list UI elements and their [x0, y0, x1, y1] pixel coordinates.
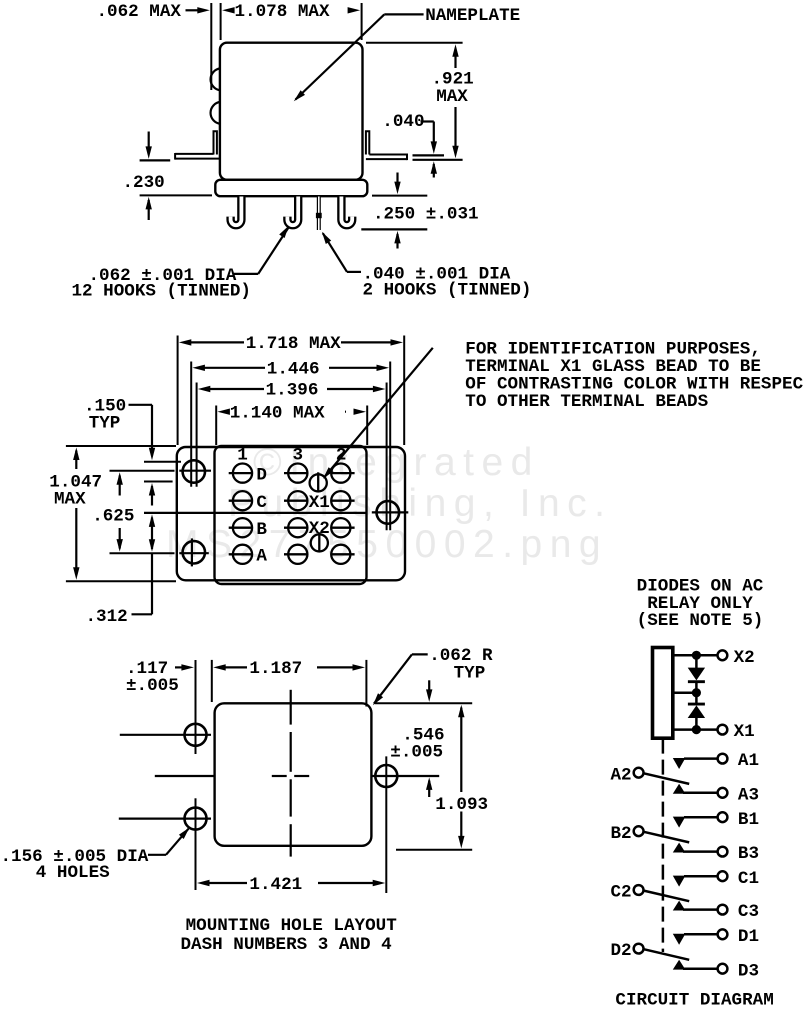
vertical centerline (dashed)	[290, 690, 292, 725]
terminal C3	[288, 491, 307, 510]
extension lines 1.396	[196, 383, 198, 487]
svg-text:A3: A3	[738, 785, 759, 805]
contact B3 (NO)	[673, 843, 686, 853]
terminal X2	[311, 534, 328, 551]
svg-text:X2: X2	[734, 648, 755, 668]
svg-text:X2: X2	[309, 519, 330, 539]
svg-text:NAMEPLATE: NAMEPLATE	[425, 6, 520, 26]
terminal D2	[331, 464, 350, 483]
terminal B1 circle	[718, 812, 728, 822]
dimension 1.718 MAX	[190, 341, 244, 343]
mounting hole top-left cross	[110, 470, 175, 472]
diode CR2 (cathode up)	[688, 703, 705, 706]
svg-text:X1: X1	[309, 493, 330, 513]
terminal A3	[288, 545, 307, 564]
dimension .625 arrows	[117, 472, 123, 485]
mounting hole top-left	[183, 460, 205, 482]
dimension 1.421	[197, 880, 210, 886]
svg-text:12 HOOKS (TINNED): 12 HOOKS (TINNED)	[72, 281, 252, 301]
nameplate leader	[384, 13, 423, 15]
junction dot middle	[692, 688, 701, 697]
svg-text:.625: .625	[92, 506, 134, 526]
contact D1 (NC)	[673, 934, 686, 945]
horizontal centerline left	[155, 775, 215, 777]
dimension .546 lower arrow	[426, 777, 432, 790]
horizontal centerline dashes	[272, 775, 287, 777]
svg-text:C: C	[256, 493, 267, 513]
relay body outline (side view)	[220, 43, 363, 180]
extension lines 1.718	[177, 336, 179, 446]
terminal C1	[233, 491, 252, 510]
horizontal centerline right	[371, 775, 439, 777]
svg-text:±.005: ±.005	[126, 676, 179, 696]
extension line body top right	[366, 42, 463, 44]
svg-text:.062 MAX: .062 MAX	[97, 2, 182, 22]
mounting plane line right upper	[413, 154, 445, 156]
svg-text:.230: .230	[123, 173, 165, 193]
extension line case bottom left	[66, 580, 176, 582]
mounting hole bottom-left	[183, 541, 205, 563]
relay coil	[653, 648, 673, 739]
terminal bead bump upper-left	[211, 68, 221, 90]
hook terminal 3 thin (.040 dia, 2 hooks)	[317, 197, 321, 231]
dimension .230 upper arrow	[148, 132, 150, 149]
mounting plane line right lower	[413, 159, 463, 161]
dimension .062 MAX arrow	[186, 9, 201, 11]
terminal C2 circle	[634, 885, 644, 895]
terminal B3	[288, 518, 307, 537]
mounting plane line left	[140, 159, 171, 161]
svg-text:D: D	[256, 465, 267, 485]
svg-text:B1: B1	[738, 810, 759, 830]
svg-text:1.421: 1.421	[249, 875, 302, 895]
arrow to hole bottom edge line	[149, 483, 155, 496]
left mounting flange plate	[175, 153, 213, 155]
dimension .921 MAX lower arrow	[454, 107, 456, 147]
diode CR1 (cathode down)	[688, 668, 705, 681]
dimension .250 lower arrow	[394, 231, 400, 244]
terminal A1 circle	[718, 754, 728, 764]
terminal view inner body outline	[215, 446, 367, 584]
wire coil to X1	[673, 728, 718, 731]
extension line case top left	[66, 445, 176, 447]
terminal A2 circle	[634, 768, 644, 778]
mounting hole layout top-left hole	[185, 724, 207, 746]
top-left hole crosslines	[120, 734, 211, 736]
terminal D3 circle	[718, 964, 728, 974]
extension line 1.187 left	[211, 660, 213, 702]
terminal X2 circle	[718, 650, 728, 660]
dimension .040 lower arrow	[431, 161, 437, 174]
terminal A3 circle	[718, 788, 728, 798]
svg-text:CIRCUIT DIAGRAM: CIRCUIT DIAGRAM	[615, 990, 773, 1009]
extension line body right edge	[361, 3, 363, 40]
svg-text:A2: A2	[611, 765, 632, 785]
leader 2 hooks	[347, 271, 361, 273]
terminal A1	[233, 545, 252, 564]
svg-text:C1: C1	[738, 869, 759, 889]
extension line body left edge	[220, 3, 222, 40]
dimension 1.396	[208, 388, 264, 390]
mounting hole right cross	[372, 511, 409, 513]
mounting outline rect	[215, 703, 372, 846]
terminal C3 circle	[718, 905, 728, 915]
diode chain wire	[695, 655, 698, 668]
mounting hole right	[377, 501, 400, 524]
extension line case bottom right (bottom view)	[396, 849, 472, 851]
svg-text:MAX: MAX	[54, 490, 86, 510]
svg-text:MOUNTING HOLE LAYOUT: MOUNTING HOLE LAYOUT	[186, 916, 398, 936]
terminal D3	[288, 464, 307, 483]
svg-text:.312: .312	[86, 607, 128, 627]
hook terminal 1 (left, .062 dia)	[231, 197, 242, 226]
dimension 1.140 MAX	[217, 409, 230, 415]
svg-text:MAX: MAX	[436, 87, 468, 107]
dimension 1.446	[203, 367, 265, 369]
svg-text:TYP: TYP	[89, 414, 121, 434]
contact A1 (NC)	[673, 758, 686, 769]
svg-text:C2: C2	[611, 883, 632, 903]
svg-text:D1: D1	[738, 927, 759, 947]
svg-text:1.078 MAX: 1.078 MAX	[235, 2, 330, 22]
svg-text:3: 3	[293, 445, 304, 465]
dimension .230 lower arrow	[146, 197, 152, 210]
dimension 1.093 upper arrow	[458, 705, 464, 718]
right mounting flange lip	[366, 131, 369, 154]
extension line 1.187 right	[365, 660, 367, 707]
svg-text:A1: A1	[738, 751, 759, 771]
terminal view outer case outline	[177, 447, 405, 580]
svg-text:.250 ±.031: .250 ±.031	[373, 204, 479, 224]
X1 identification note leader	[325, 348, 433, 477]
dimension .546 upper arrow	[428, 680, 430, 692]
wire coil middle tap	[673, 691, 696, 694]
terminal D1	[233, 464, 252, 483]
watermark line 2	[228, 482, 613, 526]
base bottom extension left	[140, 194, 212, 196]
extension line .062 MAX	[210, 3, 212, 90]
dimension .040 bracket	[421, 120, 434, 122]
right mounting flange plate	[369, 154, 407, 156]
svg-text:1: 1	[237, 445, 248, 465]
contact D3 (NO)	[673, 960, 686, 970]
svg-text:1.718 MAX: 1.718 MAX	[246, 334, 341, 354]
dimension 1.187	[213, 664, 226, 670]
dimension .312 bracket (mid view)	[151, 554, 153, 615]
junction dot X2 branch	[692, 651, 701, 660]
svg-text:±.005: ±.005	[390, 742, 443, 762]
dimension 1.047 MAX	[73, 448, 79, 461]
svg-text:.040: .040	[382, 112, 424, 132]
dimension .040 upper arrow	[431, 141, 437, 154]
svg-text:D2: D2	[611, 941, 632, 961]
base bottom extension right	[372, 195, 427, 197]
terminal C1 circle	[718, 871, 728, 881]
junction dot X1 branch	[692, 725, 701, 734]
mounting hole layout bottom-left hole	[185, 808, 207, 830]
terminal D2 circle	[634, 944, 644, 954]
svg-text:TYP: TYP	[454, 663, 486, 683]
svg-text:A: A	[256, 547, 267, 567]
hook bottom extension line	[361, 228, 427, 230]
terminal X1 (contrasting bead)	[310, 474, 327, 491]
svg-text:(SEE NOTE 5): (SEE NOTE 5)	[637, 611, 764, 631]
leader .062 R	[412, 653, 428, 655]
terminal B3 circle	[718, 847, 728, 857]
dimension 1.093 lower arrow	[460, 812, 462, 839]
terminal D1 circle	[718, 929, 728, 939]
terminal X1 circle	[718, 725, 728, 735]
mounting hole layout right hole	[375, 765, 397, 787]
svg-text:DASH NUMBERS 3 AND 4: DASH NUMBERS 3 AND 4	[181, 935, 393, 955]
dimension 1.078 MAX arrows	[222, 7, 235, 13]
terminal B1	[233, 518, 252, 537]
hook terminal 4 (right, .062 dia)	[341, 197, 352, 226]
relay base plate	[215, 180, 367, 196]
dimension .117 arrow	[175, 666, 184, 668]
contact C wiper	[644, 891, 690, 902]
svg-text:1.446: 1.446	[267, 359, 320, 379]
dimension .250 upper arrow	[396, 173, 398, 185]
contact A3 (NO)	[673, 784, 686, 794]
svg-text:X1: X1	[734, 722, 755, 742]
svg-text:2 HOOKS (TINNED): 2 HOOKS (TINNED)	[363, 280, 532, 300]
dimension .921 MAX upper arrow	[454, 55, 456, 68]
contact B1 (NC)	[673, 817, 686, 828]
reference line hole bottom edge	[144, 481, 173, 483]
armature dashed link	[662, 739, 665, 952]
right hole crossline	[385, 756, 387, 893]
svg-text:B3: B3	[738, 844, 759, 864]
dimension .150 bracket	[129, 404, 153, 406]
contact C1 (NC)	[673, 876, 686, 887]
extension lines 1.446	[190, 362, 192, 487]
terminal A2	[331, 545, 350, 564]
terminal B2 circle	[634, 826, 644, 836]
svg-text:1.140 MAX: 1.140 MAX	[230, 403, 325, 423]
reference line hole top edge	[144, 461, 181, 463]
svg-text:B2: B2	[611, 824, 632, 844]
terminal B2	[331, 518, 350, 537]
svg-text:1.187: 1.187	[249, 659, 302, 679]
terminal bead bump lower-left	[211, 102, 221, 124]
watermark line 3	[166, 523, 608, 567]
svg-text:1.396: 1.396	[266, 381, 319, 401]
bottom-left hole crosslines	[119, 817, 211, 819]
wire coil to X2	[673, 654, 718, 657]
leader 12 hooks	[234, 273, 258, 275]
leader .156 DIA	[148, 854, 166, 856]
svg-text:C3: C3	[738, 902, 759, 922]
dimension .150 arrow	[149, 448, 155, 461]
svg-text:TO OTHER TERMINAL BEADS: TO OTHER TERMINAL BEADS	[465, 392, 708, 412]
extension lines 1.140	[215, 406, 217, 446]
watermark line 1	[253, 441, 540, 485]
svg-text:B: B	[256, 520, 267, 540]
center line of terminal view	[144, 512, 366, 514]
terminal C2	[331, 491, 350, 510]
extension line case top right (bottom view)	[375, 702, 472, 704]
contact C3 (NO)	[673, 901, 686, 911]
mounting hole bottom-left cross	[110, 552, 175, 554]
hook terminal 2 (.062 dia)	[287, 197, 298, 226]
svg-text:D3: D3	[738, 961, 759, 981]
left mounting flange lip	[214, 131, 217, 154]
contact D wiper	[644, 949, 690, 960]
contact A wiper	[644, 773, 690, 784]
dimension .312 arrows (mid view)	[149, 514, 155, 527]
contact B wiper	[644, 832, 690, 843]
svg-text:4 HOLES: 4 HOLES	[36, 863, 110, 883]
